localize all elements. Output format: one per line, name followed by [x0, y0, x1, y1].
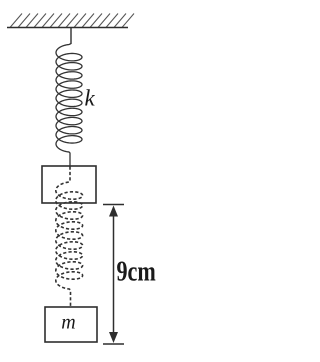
svg-text:9cm: 9cm	[117, 257, 156, 287]
svg-text:m: m	[61, 312, 75, 334]
svg-text:k: k	[85, 86, 96, 111]
